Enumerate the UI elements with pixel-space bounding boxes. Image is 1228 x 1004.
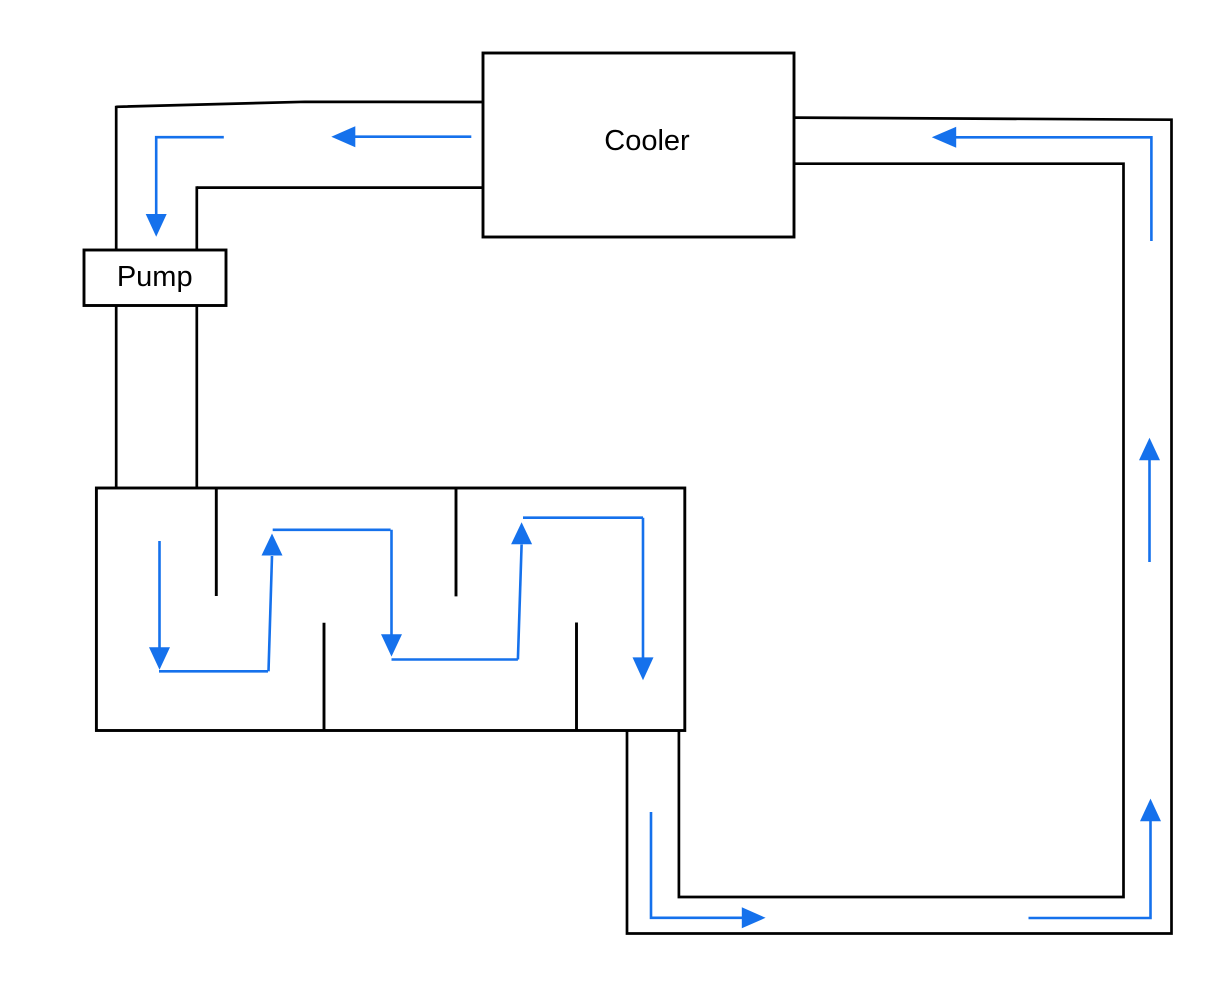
arrowhead: tank up 1 bbox=[262, 534, 283, 556]
svg-text:Cooler: Cooler bbox=[604, 125, 690, 157]
flow arrow: tank first down stroke bbox=[158, 541, 161, 648]
pump box bbox=[84, 250, 226, 306]
arrowhead: tank up 2 bbox=[511, 522, 532, 544]
flow arrow: tank top horizontal 1 bbox=[273, 528, 391, 531]
wire: right pipe Pump bottom to tank top bbox=[195, 305, 198, 490]
flow arrow: tank bottom horizontal 1 bbox=[159, 670, 268, 673]
baffle 4 from tank bottom bbox=[575, 623, 578, 730]
flow arrow: tank top horizontal 2 bbox=[523, 516, 643, 519]
flow arrow: outlet elbow below tank turning right bbox=[651, 812, 742, 918]
baffle 2 from tank top bbox=[455, 489, 458, 596]
arrowhead: down into Pump bbox=[146, 214, 167, 237]
svg-text:Pump: Pump bbox=[117, 261, 193, 293]
wire: outer left vertical pipe down to Pump top bbox=[115, 106, 118, 250]
flow arrow: elbow in top-left pipe turning down to Pump bbox=[156, 137, 224, 214]
arrowhead: rightward at bottom pipe bbox=[742, 907, 766, 928]
cooler box bbox=[483, 53, 794, 237]
flow arrow: tank final down stroke bbox=[642, 518, 645, 658]
arrowhead: tank down 1 bbox=[149, 647, 170, 670]
wire: outer top-left pipe slanted line from pump riser to Cooler left edge bbox=[116, 102, 483, 107]
arrowhead: tank down 2 bbox=[381, 634, 402, 656]
wire: outer pipe Cooler right to tank bottom outlet (top, right, bottom runs) bbox=[627, 118, 1172, 934]
wire: left pipe Pump bottom to tank top bbox=[115, 305, 118, 490]
baffle 3 from tank bottom bbox=[323, 623, 326, 730]
arrowhead: up at bottom-right corner bbox=[1140, 799, 1161, 822]
arrowhead: left toward Pump elbow bbox=[331, 126, 355, 147]
flow arrow: bottom-right elbow turning up bbox=[1029, 821, 1151, 918]
wire: inner top-left pipe horizontal from Cooler left edge bbox=[197, 186, 483, 189]
flow arrow: right riser middle up stroke bbox=[1148, 460, 1151, 562]
arrowhead: up at right riser middle bbox=[1139, 438, 1160, 460]
baffle 1 from tank top bbox=[215, 489, 218, 596]
flow arrow: tank rising stroke 1 bbox=[269, 556, 273, 671]
wire: inner top-left vertical down to Pump top bbox=[195, 186, 198, 250]
wire: inner pipe Cooler right to tank bottom outlet bbox=[679, 164, 1124, 897]
flow arrow: tank rising stroke 2 bbox=[518, 545, 522, 660]
flow arrow: top-right elbow turning left to Cooler bbox=[956, 137, 1151, 241]
flow arrow: leftward line from Cooler left side bbox=[355, 135, 471, 138]
tank box bbox=[96, 488, 684, 731]
arrowhead: left toward Cooler at top bbox=[932, 127, 956, 148]
arrowhead: tank final down bbox=[633, 657, 654, 680]
flow arrow: tank bottom horizontal 2 bbox=[392, 658, 518, 661]
flow arrow: tank down stroke 2 bbox=[390, 530, 393, 635]
